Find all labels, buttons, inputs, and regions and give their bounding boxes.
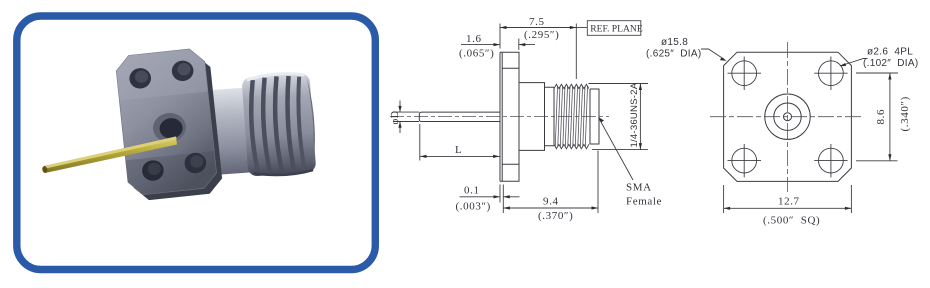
svg-text:1.6: 1.6 [466, 33, 482, 45]
mounting holes [128, 67, 152, 90]
svg-text:(.500″ SQ): (.500″ SQ) [763, 215, 820, 227]
dim 9.4 [503, 151, 598, 214]
centerline [390, 116, 609, 118]
svg-text:φD: φD [390, 111, 401, 125]
barrel neck [202, 72, 318, 180]
svg-text:ø15.8: ø15.8 [661, 37, 688, 48]
svg-text:9.4: 9.4 [543, 195, 559, 207]
svg-text:(.370″): (.370″) [538, 210, 573, 222]
dim 7.5 [500, 24, 576, 80]
svg-text:REF. PLANE: REF. PLANE [590, 24, 643, 35]
thread relief groove [545, 87, 555, 146]
svg-text:(.295″): (.295″) [524, 29, 559, 41]
svg-text:(.102″ DIA): (.102″ DIA) [863, 58, 919, 69]
svg-text:SMA: SMA [626, 182, 652, 194]
end cap shade [307, 76, 318, 170]
flange plate [115, 47, 224, 202]
dim 8.6 [856, 73, 898, 161]
svg-text:(.065″): (.065″) [459, 48, 494, 60]
threaded cylinder [242, 73, 317, 177]
svg-text:0.1: 0.1 [464, 185, 480, 197]
thread zigzag top [554, 84, 589, 88]
contact pin [42, 137, 177, 174]
mounting holes [728, 57, 848, 178]
center recess [152, 111, 188, 143]
SMA Female leader [599, 118, 634, 181]
vertical centerline [787, 42, 789, 192]
blue rounded border frame [17, 16, 376, 270]
barrel [519, 83, 545, 151]
horizontal centerline [710, 116, 862, 118]
end cap [590, 89, 599, 144]
dim L [420, 124, 500, 161]
thread helix lines [555, 86, 587, 146]
thread callout 1/4-36UNS-2A [589, 84, 649, 150]
dim 12.7 [724, 185, 852, 213]
phiD dimension arrows [399, 101, 401, 134]
svg-text:ø2.6 4PL: ø2.6 4PL [867, 47, 913, 58]
pin body [419, 112, 500, 121]
svg-text:(.625″ DIA): (.625″ DIA) [646, 49, 702, 60]
thread zigzag bottom [554, 144, 589, 148]
svg-text:(.340″): (.340″) [899, 96, 911, 131]
flange face double line [500, 52, 502, 181]
dim 1.6 [461, 39, 535, 51]
svg-text:12.7: 12.7 [778, 196, 800, 208]
thread ridges [248, 75, 305, 175]
dim 0.1 [460, 185, 520, 214]
svg-text:L: L [455, 144, 462, 156]
svg-text:8.6: 8.6 [875, 109, 887, 125]
REF. PLANE box [576, 27, 587, 29]
svg-text:1/4-36UNS-2A: 1/4-36UNS-2A [629, 82, 640, 147]
svg-text:7.5: 7.5 [529, 16, 545, 28]
center conductor circles [765, 94, 810, 139]
svg-text:Female: Female [626, 196, 662, 208]
3D connector image [42, 47, 318, 202]
svg-text:(.003″): (.003″) [456, 201, 491, 213]
pin edge extension ticks [393, 112, 419, 121]
square flange outline with chamfers [724, 52, 852, 181]
flange outline [500, 52, 519, 181]
